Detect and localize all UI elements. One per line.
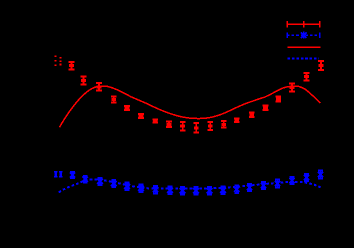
red data points with error bars (series 1) — [69, 61, 324, 133]
legend entry 3: red line sample — [288, 46, 321, 48]
blue data points (asterisk) with error bars (series 2) — [70, 171, 323, 195]
blue error bar point A at x=55.6 — [54, 171, 58, 178]
blue error bar point B at x=60.5 — [59, 171, 63, 178]
red dashed error bar point B at x=60.3 — [59, 57, 61, 65]
legend entry 4: blue dotted line sample — [288, 57, 319, 59]
red fitted curve (series 3) — [60, 86, 321, 127]
legend entry 1: red errorbar sample — [287, 21, 320, 28]
blue fitted dashed curve (series 4) — [59, 180, 321, 193]
red dashed error bar point A at x=55.6 — [55, 56, 57, 67]
legend entry 2: blue dashed errorbar sample with star — [287, 32, 320, 39]
